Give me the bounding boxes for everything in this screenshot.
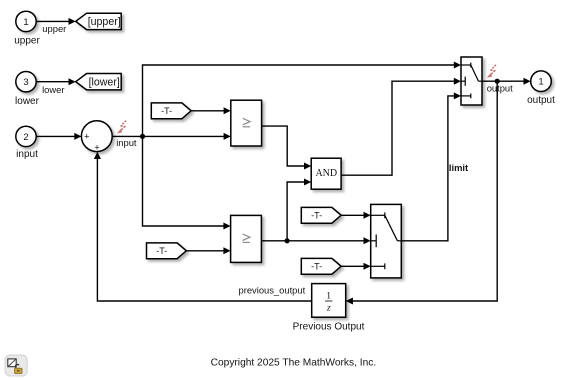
svg-text:1: 1 [538, 77, 543, 88]
arrow into Switch1 in3 [454, 92, 461, 99]
junction node B [285, 238, 290, 243]
From1 -T- [151, 103, 191, 119]
Outport 1 output [531, 71, 552, 92]
wire RelOp1 out to AND in1 [262, 126, 306, 166]
wire RelOp2 out to Switch2 ctrl [261, 240, 365, 242]
wire Inport2 to Sum [36, 135, 75, 137]
wire node input up to Switch1 in1 [143, 65, 456, 136]
fault icon at Sum output [117, 121, 126, 134]
junction node input [140, 134, 145, 139]
UnitDelay fraction bar [325, 300, 332, 302]
From3 -T- [301, 207, 341, 223]
svg-text:Previous Output: Previous Output [293, 321, 365, 332]
arrow into AND in1 [304, 163, 311, 170]
wire Sum output to node input and RelOp1 in2 [112, 135, 225, 137]
RelOp1 symbol [243, 118, 250, 127]
svg-text:2: 2 [23, 132, 28, 143]
wire From1 to RelOp1 in1 [191, 110, 225, 112]
svg-text:+: + [94, 142, 100, 153]
wire From4 to Switch2 in3 [341, 265, 365, 267]
From2 -T- [147, 243, 187, 259]
arrow into Switch1 in1 [454, 62, 461, 69]
wire UnitDelay out to Sum bottom [97, 158, 311, 302]
arrow into Switch1 ctrl [454, 78, 461, 85]
Sum block [81, 121, 112, 152]
wire Switch1 out to Outport [482, 80, 525, 82]
RelOp2 block [231, 215, 262, 262]
svg-text:3: 3 [23, 77, 28, 88]
wire Inport1 to Goto upper [36, 20, 69, 22]
svg-text:-T-: -T- [311, 262, 322, 272]
RelOp1 block [231, 100, 262, 146]
svg-text:lower: lower [42, 84, 64, 95]
svg-text:input: input [116, 137, 137, 148]
arrow into RelOp1 in2 [224, 133, 231, 140]
svg-text:upper: upper [42, 23, 66, 34]
arrow into Outport [524, 78, 531, 85]
svg-text:-T-: -T- [156, 246, 167, 256]
wire Inport3 to Goto lower [36, 81, 69, 83]
svg-text:upper: upper [14, 36, 40, 47]
Goto [lower] [76, 74, 122, 90]
AND block [311, 158, 341, 189]
junction node output [495, 79, 500, 84]
svg-text:input: input [16, 149, 38, 160]
From4 -T- [301, 258, 341, 274]
wire node input down to RelOp2 in1 [143, 136, 226, 226]
svg-text:limit: limit [449, 162, 468, 173]
arrow into Goto upper [69, 18, 76, 25]
Goto [upper] [76, 13, 122, 29]
svg-text:Copyright 2025 The MathWorks,: Copyright 2025 The MathWorks, Inc. [211, 357, 377, 368]
fault icon at Switch1 output [487, 65, 496, 78]
wire node B up to AND in2 [287, 182, 306, 241]
arrow into Sum [74, 133, 81, 140]
arrow into AND in2 [304, 179, 311, 186]
Switch2 inner symbol [371, 212, 402, 269]
arrow into RelOp2 in1 [223, 223, 230, 230]
arrow into UnitDelay (left pointing) [346, 298, 353, 305]
arrow into RelOp2 in2 [223, 247, 230, 254]
svg-text:[upper]: [upper] [88, 16, 121, 28]
wire Switch2 out up to Switch1 in3 (limit) [401, 96, 455, 241]
Inport 1 upper [16, 11, 36, 31]
svg-text:z: z [326, 303, 331, 313]
svg-text:-T-: -T- [311, 211, 322, 221]
svg-text:1: 1 [326, 292, 331, 302]
svg-text:output: output [487, 82, 513, 93]
arrow into Switch2 in1 [364, 212, 371, 219]
RelOp2 symbol [243, 234, 250, 243]
svg-text:lower: lower [15, 96, 40, 107]
svg-text:previous_output: previous_output [239, 285, 306, 296]
svg-text:[lower]: [lower] [89, 76, 120, 88]
wire AND out to Switch1 ctrl [341, 81, 455, 175]
wire From3 to Switch2 in1 [341, 214, 365, 216]
Switch1 inner symbol [461, 63, 482, 99]
arrow into Switch2 in3 [364, 263, 371, 270]
svg-text:output: output [527, 95, 555, 106]
svg-text:-T-: -T- [161, 106, 172, 116]
arrow into Sum bottom (up pointing) [94, 152, 101, 159]
wire node output down to UnitDelay input [352, 81, 498, 301]
arrow into Goto lower [69, 78, 76, 85]
svg-text:AND: AND [315, 168, 337, 179]
wire From2 to RelOp2 in2 [186, 250, 225, 252]
UnitDelay block [312, 284, 346, 318]
Switch1 block [461, 57, 482, 105]
Switch2 block [371, 204, 402, 278]
arrow into Switch2 ctrl [364, 237, 371, 244]
svg-text:1: 1 [23, 17, 28, 28]
Inport 2 input [16, 126, 36, 146]
svg-text:+: + [84, 132, 90, 143]
Inport 3 lower [16, 72, 36, 92]
arrow into RelOp1 in1 [224, 107, 231, 114]
